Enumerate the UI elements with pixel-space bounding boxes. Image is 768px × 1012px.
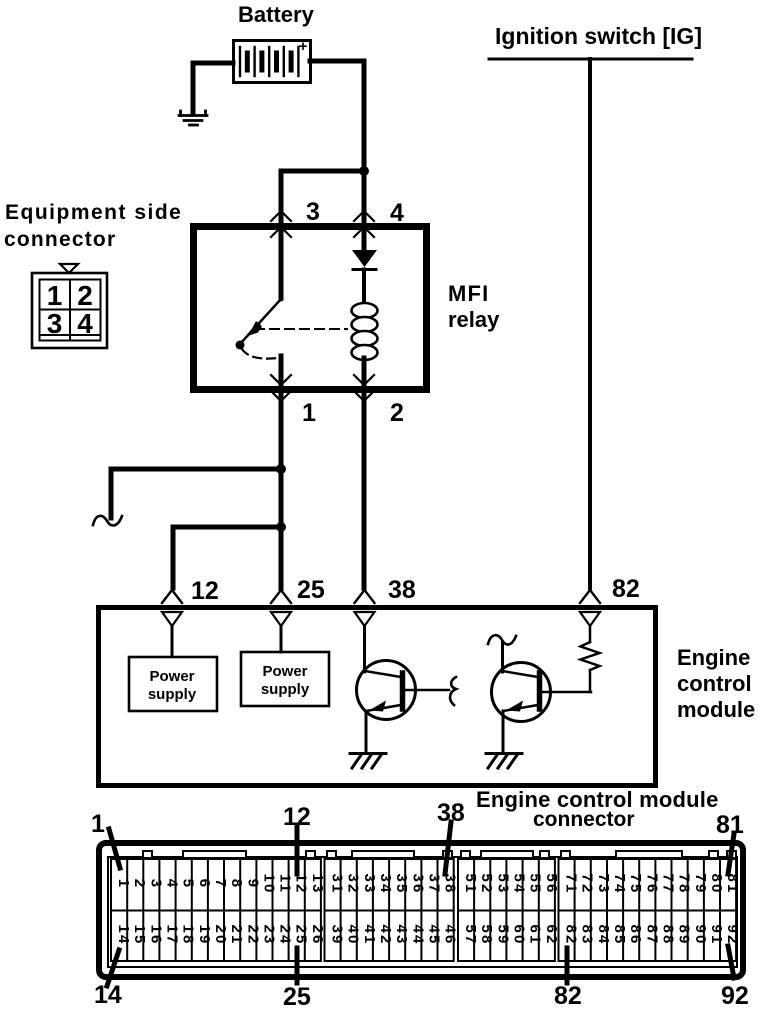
svg-text:13: 13: [309, 873, 326, 894]
svg-text:connector: connector: [533, 808, 635, 831]
svg-text:92: 92: [724, 924, 741, 945]
svg-text:25: 25: [293, 924, 310, 945]
ECM connector label: [476, 787, 719, 831]
svg-text:33: 33: [361, 873, 378, 894]
connector section pins 71-81/82-92: [559, 859, 742, 961]
svg-text:7: 7: [212, 879, 229, 890]
battery B1: [234, 38, 311, 83]
svg-text:89: 89: [676, 924, 693, 945]
wire branch to relay pin 3: [281, 171, 364, 223]
svg-text:55: 55: [527, 873, 544, 894]
svg-text:2: 2: [77, 280, 93, 311]
svg-text:72: 72: [579, 873, 596, 894]
svg-text:73: 73: [595, 873, 612, 894]
relay pin 3 connector chevrons: [271, 211, 291, 221]
svg-text:81: 81: [716, 811, 744, 839]
ECM pin 82 entry: [580, 590, 600, 603]
relay pin 2 connector chevrons: [354, 375, 374, 385]
svg-text:Ignition switch [IG]: Ignition switch [IG]: [495, 23, 702, 49]
svg-text:71: 71: [563, 873, 580, 894]
svg-text:relay: relay: [448, 307, 500, 332]
svg-text:23: 23: [260, 924, 277, 945]
wire Q2 emitter to ground: [502, 711, 505, 753]
svg-text:88: 88: [660, 924, 677, 945]
svg-text:42: 42: [377, 924, 394, 945]
wire pin25 to power supply: [280, 626, 283, 652]
relay armature dashed curve: [242, 349, 278, 359]
svg-text:38: 38: [442, 873, 459, 894]
wire branch to ECM pin 12: [173, 527, 281, 588]
power supply box 2: [241, 652, 329, 706]
svg-text:35: 35: [393, 873, 410, 894]
svg-text:10: 10: [260, 873, 277, 894]
svg-text:MFI: MFI: [448, 281, 489, 306]
svg-text:5: 5: [180, 879, 197, 890]
relay switch arm: [236, 299, 282, 350]
wire to relay pin 4: [362, 171, 367, 223]
relay switch contact: [279, 297, 284, 302]
wire ignition IG to ECM pin 82: [588, 59, 592, 588]
ground battery: [179, 111, 207, 125]
svg-text:module: module: [677, 697, 755, 722]
base lead break squiggle Q1: [450, 677, 456, 705]
svg-text:17: 17: [164, 924, 181, 945]
ECM pin 12 entry: [162, 590, 182, 603]
svg-text:1: 1: [47, 280, 63, 311]
svg-text:1: 1: [91, 810, 105, 838]
svg-text:58: 58: [478, 924, 495, 945]
svg-text:56: 56: [543, 873, 560, 894]
wire pin38 to transistor Q1: [363, 626, 366, 672]
wire branch with break (upper): [111, 469, 281, 518]
svg-text:80: 80: [708, 873, 725, 894]
svg-text:62: 62: [543, 924, 560, 945]
svg-text:76: 76: [643, 873, 660, 894]
svg-text:45: 45: [426, 924, 443, 945]
svg-text:52: 52: [478, 873, 495, 894]
svg-text:25: 25: [283, 983, 311, 1011]
svg-text:2: 2: [131, 879, 148, 890]
svg-text:25: 25: [297, 576, 325, 604]
svg-text:Equipment side: Equipment side: [5, 201, 182, 224]
wire battery positive lead: [310, 61, 364, 169]
svg-text:Engine: Engine: [677, 645, 750, 670]
svg-text:90: 90: [692, 924, 709, 945]
wire Q1 emitter to ground: [365, 711, 368, 753]
svg-text:91: 91: [708, 924, 725, 945]
svg-text:75: 75: [627, 873, 644, 894]
svg-text:connector: connector: [4, 228, 116, 251]
svg-text:36: 36: [409, 873, 426, 894]
svg-text:53: 53: [494, 873, 511, 894]
node junction on pin1 wire (lower): [276, 522, 286, 532]
wire pin12 to power supply: [171, 626, 174, 656]
svg-text:79: 79: [692, 873, 709, 894]
wire relay pin 1 to ECM pin 25: [279, 356, 284, 588]
svg-text:82: 82: [612, 575, 640, 603]
svg-text:3: 3: [147, 879, 164, 890]
svg-text:16: 16: [147, 924, 164, 945]
svg-text:86: 86: [627, 924, 644, 945]
svg-text:37: 37: [426, 873, 443, 894]
svg-text:38: 38: [388, 576, 416, 604]
svg-text:74: 74: [611, 873, 628, 894]
svg-text:82: 82: [563, 924, 580, 945]
svg-text:21: 21: [228, 924, 245, 945]
wire battery negative lead: [193, 63, 233, 112]
svg-text:44: 44: [409, 924, 426, 945]
svg-text:control: control: [677, 671, 752, 696]
ECM pin 38 entry: [355, 590, 375, 603]
svg-text:19: 19: [196, 924, 213, 945]
svg-text:92: 92: [721, 982, 749, 1010]
svg-text:22: 22: [244, 924, 261, 945]
svg-text:85: 85: [611, 924, 628, 945]
svg-text:54: 54: [511, 873, 528, 894]
svg-text:77: 77: [660, 873, 677, 894]
svg-text:18: 18: [180, 924, 197, 945]
svg-text:46: 46: [442, 924, 459, 945]
wire relay pin 3 internal: [279, 223, 284, 298]
svg-text:3: 3: [47, 308, 63, 339]
relay linkage dashed line: [255, 328, 347, 330]
relay pin 4 connector chevrons: [354, 211, 374, 221]
svg-text:15: 15: [131, 924, 148, 945]
svg-text:24: 24: [277, 924, 294, 945]
diode D1: [352, 223, 377, 270]
connector section pins 31-38/39-46: [325, 859, 459, 961]
collector break squiggle Q2: [488, 635, 516, 644]
svg-text:59: 59: [494, 924, 511, 945]
equipment side connector symbol: [32, 264, 107, 348]
svg-text:6: 6: [196, 879, 213, 890]
svg-text:12: 12: [191, 577, 219, 605]
ignition switch terminal line: [489, 58, 692, 61]
svg-text:40: 40: [345, 924, 362, 945]
wire break squiggle (upper): [93, 516, 122, 526]
transistor Q1: [357, 661, 450, 720]
svg-text:supply: supply: [148, 686, 197, 703]
wire relay pin 2 to ECM pin 38: [362, 358, 367, 588]
svg-text:26: 26: [309, 924, 326, 945]
svg-text:Power: Power: [149, 668, 194, 685]
svg-text:11: 11: [277, 874, 294, 894]
svg-text:4: 4: [164, 879, 181, 890]
svg-text:12: 12: [293, 873, 310, 894]
ground Q1: [350, 754, 386, 769]
svg-text:Power: Power: [262, 663, 307, 680]
svg-text:3: 3: [306, 198, 320, 226]
svg-text:8: 8: [228, 879, 245, 890]
svg-text:51: 51: [462, 873, 479, 894]
svg-text:4: 4: [77, 308, 93, 339]
relay pin 1 connector chevrons: [271, 375, 291, 385]
ECM pin 25 entry: [271, 590, 291, 603]
svg-text:83: 83: [579, 924, 596, 945]
svg-text:14: 14: [115, 924, 132, 945]
wire squiggle to Q2 collector: [501, 642, 504, 672]
svg-text:2: 2: [390, 399, 404, 427]
connector section pins 51-56/57-62: [458, 859, 560, 961]
engine control module box: [99, 608, 656, 786]
ECM connector body: [99, 843, 743, 977]
power supply box 1: [129, 657, 217, 711]
resistor R1: [581, 626, 600, 692]
node junction on pin1 wire (upper): [276, 464, 286, 474]
svg-text:4: 4: [390, 199, 404, 227]
svg-text:34: 34: [377, 873, 394, 894]
svg-text:84: 84: [595, 924, 612, 945]
svg-text:1: 1: [302, 399, 316, 427]
svg-text:82: 82: [554, 982, 582, 1010]
svg-text:78: 78: [676, 873, 693, 894]
MFI relay box: [194, 227, 427, 390]
svg-text:1: 1: [115, 879, 132, 890]
relay coil L1: [352, 270, 378, 361]
connector keying tabs: [143, 851, 736, 858]
svg-text:20: 20: [212, 924, 229, 945]
connector section pins 1-13/14-26: [111, 859, 326, 961]
svg-text:+: +: [299, 38, 308, 55]
node junction battery feed: [359, 166, 369, 176]
svg-text:31: 31: [329, 873, 346, 894]
svg-text:81: 81: [724, 873, 741, 894]
svg-text:87: 87: [643, 924, 660, 945]
ground Q2: [486, 754, 522, 769]
svg-text:61: 61: [527, 924, 544, 945]
svg-text:41: 41: [361, 924, 378, 945]
engine control module label: [677, 645, 755, 722]
svg-text:9: 9: [244, 879, 261, 890]
svg-text:57: 57: [462, 924, 479, 945]
svg-text:43: 43: [393, 924, 410, 945]
svg-text:supply: supply: [261, 681, 310, 698]
svg-text:Battery: Battery: [238, 2, 315, 27]
svg-text:32: 32: [345, 873, 362, 894]
svg-text:39: 39: [329, 924, 346, 945]
svg-text:60: 60: [511, 924, 528, 945]
transistor Q2: [492, 663, 592, 722]
